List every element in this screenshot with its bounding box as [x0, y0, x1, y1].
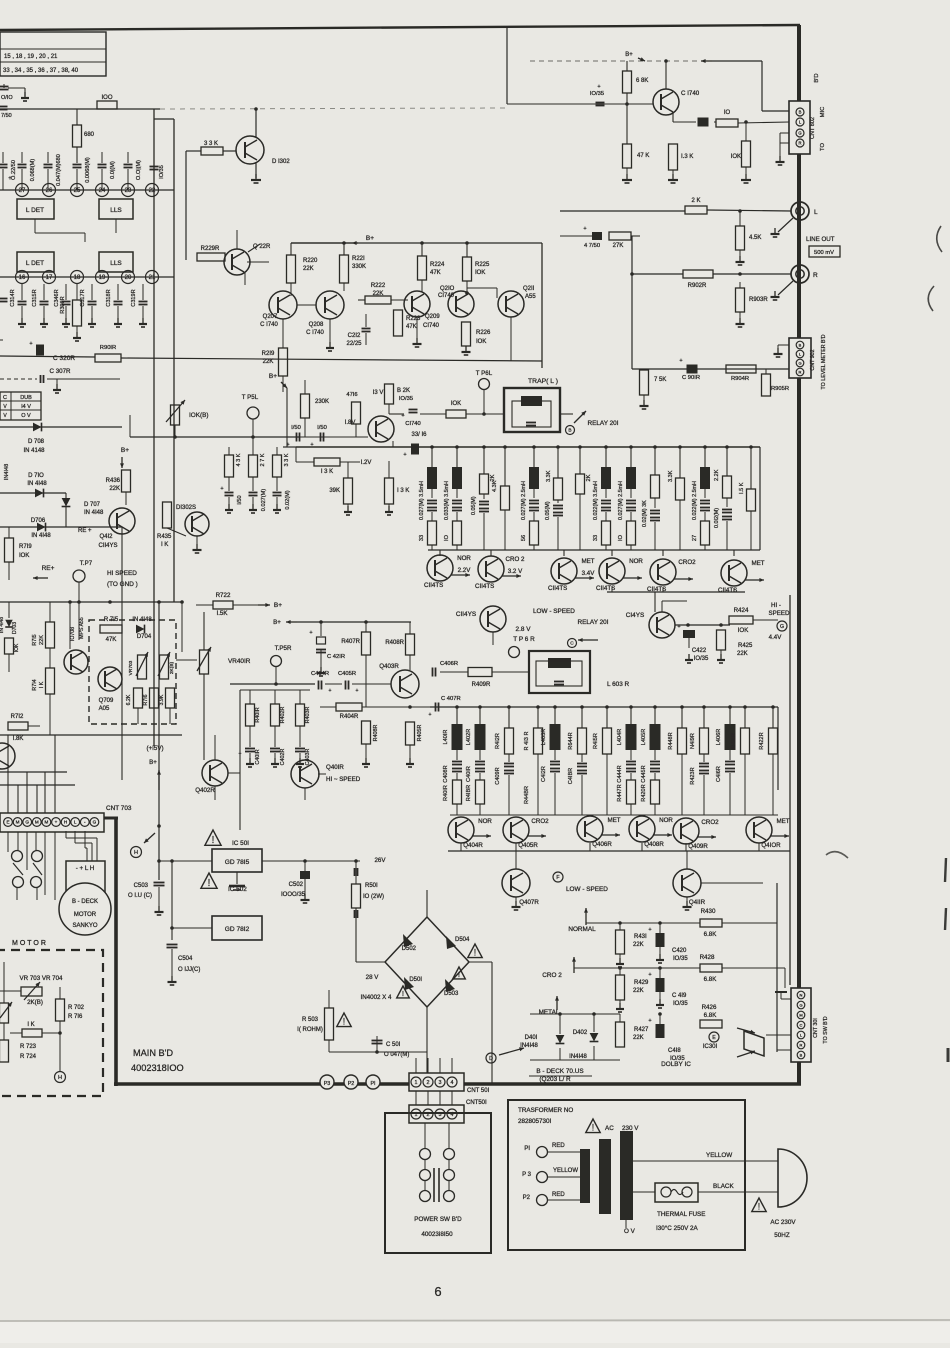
svg-text:M: M — [44, 820, 48, 825]
svg-text:R: R — [799, 369, 802, 374]
svg-text:I.8K: I.8K — [13, 736, 24, 742]
svg-text:L: L — [814, 209, 818, 216]
svg-text:56: 56 — [521, 535, 527, 541]
svg-text:G: G — [799, 1002, 802, 1007]
svg-text:I4 V: I4 V — [21, 404, 31, 410]
svg-text:C40IR: C40IR — [466, 766, 472, 782]
svg-text:+: + — [329, 688, 332, 694]
svg-text:C I740: C I740 — [681, 90, 700, 97]
svg-text:0.05(M): 0.05(M) — [471, 496, 477, 515]
svg-text:A05: A05 — [99, 706, 110, 712]
svg-text:15 , 18 , 19 , 20 , 21: 15 , 18 , 19 , 20 , 21 — [4, 54, 58, 60]
svg-text:R308R: R308R — [60, 296, 66, 313]
svg-text:27K: 27K — [613, 243, 624, 249]
svg-text:IN4I48: IN4I48 — [4, 464, 10, 480]
svg-text:22K: 22K — [373, 291, 384, 297]
svg-text:B+: B+ — [366, 235, 374, 242]
svg-text:23: 23 — [125, 188, 132, 194]
svg-text:AC: AC — [605, 1125, 614, 1132]
svg-text:NOR: NOR — [478, 818, 492, 825]
svg-text:I.5K: I.5K — [216, 610, 228, 617]
svg-text:0.068(M): 0.068(M) — [30, 159, 36, 182]
svg-text:L403R: L403R — [541, 729, 547, 745]
svg-text:22K: 22K — [633, 942, 644, 948]
svg-text:IOK: IOK — [451, 401, 461, 407]
svg-text:2.2K: 2.2K — [714, 469, 720, 481]
svg-text:!: ! — [458, 970, 460, 979]
svg-text:R42IR: R42IR — [731, 733, 737, 749]
svg-text:Q4IOR: Q4IOR — [761, 842, 781, 849]
svg-text:E: E — [6, 820, 9, 825]
svg-text:D706: D706 — [31, 518, 46, 524]
svg-text:D40I: D40I — [525, 1035, 538, 1041]
svg-text:C4I8: C4I8 — [668, 1048, 681, 1054]
svg-text:20: 20 — [125, 275, 132, 281]
svg-text:IO/35: IO/35 — [159, 165, 165, 179]
svg-text:6.8K: 6.8K — [704, 976, 718, 983]
svg-text:C: C — [800, 1022, 803, 1027]
svg-text:0.027(M) 2.5mH: 0.027(M) 2.5mH — [618, 481, 624, 520]
svg-text:CNT50I: CNT50I — [466, 1100, 487, 1106]
svg-text:C409R: C409R — [495, 767, 501, 784]
svg-text:IOOO/35: IOOO/35 — [281, 892, 306, 898]
svg-text:IO: IO — [618, 534, 624, 541]
svg-text:0.022(M) 3.5mH: 0.022(M) 3.5mH — [593, 481, 599, 520]
svg-text:YELLOW: YELLOW — [553, 1168, 578, 1174]
svg-text:MOTOR: MOTOR — [74, 912, 97, 918]
svg-text:Q2IO: Q2IO — [440, 286, 455, 292]
svg-text:CNT 902: CNT 902 — [810, 349, 816, 370]
svg-text:B+: B+ — [273, 619, 281, 626]
svg-text:RED: RED — [552, 1192, 565, 1198]
svg-text:CRO2: CRO2 — [678, 559, 696, 566]
svg-text:MIC: MIC — [820, 107, 826, 118]
svg-text:C I740: C I740 — [260, 322, 278, 328]
svg-text:B+: B+ — [274, 602, 282, 609]
svg-text:33: 33 — [593, 535, 599, 541]
svg-text:Q40IR: Q40IR — [326, 764, 344, 771]
svg-text:R 4I3 R: R 4I3 R — [524, 732, 530, 751]
svg-text:R7I2: R7I2 — [11, 714, 24, 720]
svg-text:G: G — [798, 131, 801, 136]
svg-text:I/50: I/50 — [237, 495, 243, 504]
svg-text:Q408R: Q408R — [644, 841, 664, 848]
svg-text:18: 18 — [74, 275, 81, 281]
svg-text:R7I4: R7I4 — [32, 679, 38, 690]
svg-text:R428: R428 — [700, 954, 715, 961]
svg-text:2K: 2K — [490, 474, 496, 481]
svg-text:CI4YS: CI4YS — [626, 612, 644, 619]
svg-text:H: H — [134, 850, 138, 856]
svg-text:B+: B+ — [625, 52, 633, 58]
svg-text:IOK: IOK — [14, 643, 20, 652]
svg-text:+: + — [220, 486, 223, 492]
svg-text:28 V: 28 V — [366, 974, 380, 981]
svg-text:I30°C 250V 2A: I30°C 250V 2A — [656, 1224, 699, 1232]
svg-text:MAIN B'D: MAIN B'D — [133, 1048, 173, 1058]
svg-text:R903R: R903R — [749, 297, 768, 303]
svg-text:VR703: VR703 — [128, 660, 134, 675]
svg-text:Q2II: Q2II — [523, 286, 535, 292]
svg-text:25: 25 — [74, 188, 81, 194]
svg-text:230 V: 230 V — [622, 1125, 639, 1132]
svg-text:230K: 230K — [315, 399, 329, 405]
svg-text:DI302S: DI302S — [176, 505, 196, 511]
svg-text:22K: 22K — [303, 266, 314, 272]
svg-text:B+: B+ — [269, 373, 277, 380]
svg-text:2 7 K: 2 7 K — [260, 453, 266, 466]
svg-text:3 3 K: 3 3 K — [284, 453, 290, 466]
svg-text:M: M — [16, 820, 20, 825]
svg-text:47K: 47K — [430, 270, 441, 276]
svg-text:T.P7: T.P7 — [80, 560, 93, 567]
svg-text:26V: 26V — [374, 857, 386, 864]
svg-text:C 407R: C 407R — [441, 696, 461, 702]
svg-text:RE +: RE + — [78, 528, 92, 534]
svg-text:+: + — [583, 226, 586, 232]
svg-text:C 307R: C 307R — [50, 368, 72, 375]
svg-text:B'D: B'D — [814, 73, 820, 82]
svg-text:3.3K: 3.3K — [546, 470, 552, 482]
svg-text:47 K: 47 K — [637, 153, 649, 159]
svg-text:O V: O V — [624, 1228, 636, 1235]
svg-text:VR 703 VR 704: VR 703 VR 704 — [20, 975, 64, 982]
svg-text:Q405R: Q405R — [518, 842, 538, 849]
svg-text:Q402R: Q402R — [195, 787, 215, 794]
svg-text:C4I6R: C4I6R — [716, 766, 722, 782]
svg-text:T.P5R: T.P5R — [275, 645, 292, 652]
svg-text:O.22/50: O.22/50 — [11, 160, 17, 180]
svg-text:Q406R: Q406R — [592, 841, 612, 848]
svg-text:CRO2: CRO2 — [531, 818, 549, 825]
svg-text:I 3 K: I 3 K — [321, 469, 333, 475]
svg-text:TRASFORMER NO: TRASFORMER NO — [518, 1107, 573, 1114]
svg-text:LOW - SPEED: LOW - SPEED — [533, 608, 575, 615]
svg-text:+: + — [356, 688, 359, 694]
svg-text:R422R: R422R — [759, 732, 765, 749]
svg-text:C40IR: C40IR — [255, 749, 261, 764]
svg-text:IN 4I48: IN 4I48 — [132, 617, 152, 623]
svg-text:I/50: I/50 — [291, 425, 301, 431]
svg-text:C504: C504 — [178, 956, 193, 962]
svg-text:4 3 K: 4 3 K — [236, 453, 242, 466]
svg-text:RELAY 20I: RELAY 20I — [577, 619, 608, 626]
svg-text:R: R — [813, 272, 818, 279]
svg-text:M: M — [35, 820, 39, 825]
svg-text:T P6L: T P6L — [476, 370, 493, 377]
svg-text:LOW - SPEED: LOW - SPEED — [566, 886, 608, 893]
svg-text:R 702: R 702 — [68, 1005, 85, 1011]
svg-text:Q409R: Q409R — [688, 843, 708, 850]
svg-text:0.0|(M): 0.0|(M) — [110, 161, 116, 179]
svg-text:(+I5V): (+I5V) — [146, 745, 163, 752]
svg-text:0.0I2(M): 0.0I2(M) — [714, 508, 720, 528]
svg-text:NORMAL: NORMAL — [568, 926, 596, 933]
svg-text:CI740: CI740 — [405, 421, 420, 427]
svg-text:C 50I: C 50I — [386, 1042, 401, 1048]
svg-text:16: 16 — [19, 275, 26, 281]
svg-text:I.8V: I.8V — [345, 420, 356, 426]
svg-text:CI740: CI740 — [423, 323, 440, 329]
svg-text:CII4YS: CII4YS — [456, 611, 476, 618]
svg-text:R426: R426 — [702, 1004, 717, 1011]
svg-text:METAL: METAL — [539, 1009, 560, 1016]
svg-text:R644R: R644R — [568, 732, 574, 749]
svg-text:C: C — [570, 641, 574, 647]
svg-text:AC 230V: AC 230V — [770, 1219, 796, 1226]
svg-text:P3: P3 — [324, 1081, 331, 1087]
svg-text:C405R: C405R — [338, 671, 356, 677]
svg-text:I( ROHM): I( ROHM) — [297, 1027, 323, 1033]
svg-text:R7I5: R7I5 — [32, 634, 38, 645]
svg-text:R90IR: R90IR — [100, 345, 116, 351]
svg-text:Q404R: Q404R — [463, 842, 483, 849]
svg-text:L 603 R: L 603 R — [607, 681, 630, 688]
svg-text:R408R: R408R — [385, 640, 404, 646]
svg-text:22: 22 — [149, 188, 156, 194]
svg-text:TO SW B'D: TO SW B'D — [823, 1016, 829, 1043]
svg-text:C4I2R: C4I2R — [541, 766, 547, 782]
svg-text:B: B — [568, 428, 571, 434]
svg-text:CII4TS: CII4TS — [548, 585, 567, 592]
svg-text:R4IBR: R4IBR — [466, 785, 472, 801]
svg-text:!: ! — [592, 1123, 594, 1133]
svg-text:E: E — [712, 1035, 716, 1041]
svg-text:IO/35: IO/35 — [590, 91, 604, 97]
svg-text:3.2 V: 3.2 V — [508, 568, 523, 575]
svg-text:0.05(M): 0.05(M) — [545, 501, 551, 520]
svg-text:R430: R430 — [701, 908, 716, 915]
svg-text:33/ I6: 33/ I6 — [411, 432, 427, 438]
svg-text:R405R: R405R — [417, 725, 423, 742]
svg-text:IN 4I48: IN 4I48 — [84, 510, 104, 516]
svg-text:R402R: R402R — [280, 707, 286, 724]
svg-text:R4I2R: R4I2R — [495, 733, 501, 749]
svg-text:R4I5R: R4I5R — [593, 733, 599, 749]
svg-text:CRO 2: CRO 2 — [506, 556, 525, 563]
svg-text:D503: D503 — [444, 991, 459, 997]
svg-text:R423R: R423R — [690, 767, 696, 784]
svg-text:2.2V: 2.2V — [458, 567, 472, 574]
svg-text:0.0068(M): 0.0068(M) — [85, 157, 91, 183]
svg-text:O V: O V — [21, 413, 31, 419]
svg-text:IC 50I: IC 50I — [232, 840, 249, 847]
svg-text:IOK(B): IOK(B) — [189, 412, 209, 419]
svg-text:0.027(M) 3.5mH: 0.027(M) 3.5mH — [419, 481, 425, 520]
svg-text:IO: IO — [444, 534, 450, 541]
svg-text:NOR: NOR — [457, 555, 471, 562]
svg-text:+: + — [403, 452, 406, 458]
svg-text:I/50: I/50 — [317, 425, 327, 431]
svg-text:R44BR: R44BR — [524, 786, 530, 804]
svg-text:!: ! — [212, 835, 215, 846]
svg-text:R229R: R229R — [201, 246, 220, 252]
svg-text:330K: 330K — [352, 264, 366, 270]
svg-text:D 7IO: D 7IO — [28, 473, 44, 479]
svg-text:+: + — [239, 751, 242, 757]
svg-text:R220: R220 — [303, 258, 318, 264]
svg-text:!: ! — [474, 948, 476, 958]
svg-text:N: N — [800, 992, 803, 997]
svg-text:C 4I9: C 4I9 — [672, 993, 687, 999]
svg-text:GD 78I5: GD 78I5 — [225, 859, 250, 866]
svg-text:R447R: R447R — [617, 784, 623, 801]
svg-text:4.4V: 4.4V — [769, 634, 783, 641]
svg-text:C2I2: C2I2 — [348, 333, 361, 339]
svg-text:R7I9: R7I9 — [19, 544, 32, 550]
svg-text:+: + — [648, 1018, 651, 1024]
svg-text:Q407R: Q407R — [519, 899, 539, 906]
svg-text:33 , 34 , 35 , 36 , 37 , 38, 4: 33 , 34 , 35 , 36 , 37 , 38, 40 — [3, 68, 79, 74]
svg-text:B: B — [799, 342, 802, 347]
svg-text:IO/35: IO/35 — [694, 656, 709, 662]
svg-text:RED: RED — [552, 1143, 565, 1149]
svg-text:Q4I2: Q4I2 — [99, 534, 113, 540]
svg-text:C420: C420 — [672, 948, 687, 954]
svg-text:D I302: D I302 — [272, 159, 290, 165]
svg-text:R435: R435 — [157, 534, 172, 540]
svg-text:+: + — [29, 341, 32, 347]
svg-text:2: 2 — [427, 1080, 430, 1086]
svg-text:2K(B): 2K(B) — [27, 999, 43, 1006]
svg-text:22K: 22K — [737, 651, 748, 657]
svg-text:C406R: C406R — [440, 661, 458, 667]
svg-text:0.027(M): 0.027(M) — [261, 489, 267, 512]
svg-text:R905R: R905R — [771, 386, 789, 392]
svg-text:Q403R: Q403R — [379, 663, 399, 670]
svg-text:MET: MET — [776, 818, 789, 825]
svg-text:Q4IIR: Q4IIR — [689, 899, 706, 906]
svg-text:C404R: C404R — [311, 671, 329, 677]
svg-text:C315R: C315R — [32, 289, 38, 306]
svg-text:F: F — [556, 875, 559, 881]
svg-text:R404R: R404R — [340, 714, 359, 720]
svg-text:IN 4I48: IN 4I48 — [31, 533, 51, 539]
svg-text:R50I: R50I — [365, 883, 378, 889]
svg-text:R40IR: R40IR — [255, 707, 261, 722]
svg-text:6.2K: 6.2K — [126, 694, 132, 705]
svg-text:C I740: C I740 — [306, 330, 324, 336]
svg-text:I.5 K: I.5 K — [739, 482, 745, 494]
svg-text:+: + — [8, 176, 12, 182]
svg-text:0.027(M) 2.5mH: 0.027(M) 2.5mH — [521, 481, 527, 520]
svg-text:RE+: RE+ — [42, 565, 55, 572]
svg-text:O I.U (C): O I.U (C) — [128, 893, 152, 899]
svg-text:THERMAL FUSE: THERMAL FUSE — [657, 1211, 705, 1218]
svg-text:26: 26 — [46, 188, 53, 194]
svg-text:G: G — [798, 360, 801, 365]
svg-text:0.022(M) 2.5mH: 0.022(M) 2.5mH — [692, 481, 698, 520]
svg-text:3.3K: 3.3K — [668, 470, 674, 482]
svg-text:O.O|(M): O.O|(M) — [136, 160, 142, 180]
svg-text:27: 27 — [692, 535, 698, 541]
svg-text:R902R: R902R — [688, 283, 707, 289]
svg-text:C: C — [3, 395, 7, 401]
svg-text:R22I: R22I — [352, 256, 365, 262]
svg-text:+: + — [677, 624, 680, 630]
svg-text:17: 17 — [46, 275, 53, 281]
svg-text:33: 33 — [419, 535, 425, 541]
svg-text:22K: 22K — [263, 359, 274, 365]
svg-text:PI: PI — [524, 1146, 530, 1152]
svg-text:CRO 2: CRO 2 — [542, 972, 562, 979]
svg-text:IO/35: IO/35 — [673, 1001, 688, 1007]
svg-text:3: 3 — [439, 1080, 442, 1086]
svg-text:R424: R424 — [734, 607, 749, 614]
svg-text:R226: R226 — [476, 330, 491, 336]
svg-text:I.2V: I.2V — [361, 460, 372, 466]
svg-text:HI ~ SPEED: HI ~ SPEED — [326, 776, 361, 783]
svg-text:IOK: IOK — [476, 339, 486, 345]
svg-text:H: H — [58, 1075, 62, 1081]
svg-text:6.8K: 6.8K — [704, 931, 718, 938]
svg-text:CI740: CI740 — [438, 293, 455, 299]
svg-text:IOK: IOK — [19, 553, 29, 559]
svg-text:LINE OUT: LINE OUT — [806, 236, 835, 243]
svg-text:4 7/50: 4 7/50 — [584, 243, 600, 249]
svg-text:C4IBR: C4IBR — [568, 768, 574, 784]
svg-text:22K: 22K — [633, 988, 644, 994]
svg-text:G: G — [780, 624, 784, 630]
svg-text:MET: MET — [581, 558, 594, 565]
svg-text:IN4002 X 4: IN4002 X 4 — [361, 994, 393, 1001]
svg-text:MPS A55: MPS A55 — [79, 617, 85, 639]
svg-text:L406R: L406R — [716, 729, 722, 745]
svg-text:P2: P2 — [523, 1195, 531, 1201]
svg-text:B 2K: B 2K — [397, 388, 410, 394]
svg-text:CII4TS: CII4TS — [424, 582, 443, 589]
svg-text:IO (2W): IO (2W) — [363, 894, 384, 900]
svg-text:POWER SW B'D: POWER SW B'D — [414, 1216, 462, 1223]
svg-text:27: 27 — [19, 188, 26, 194]
svg-text:IN 4148: IN 4148 — [23, 448, 45, 454]
svg-text:R222: R222 — [371, 283, 386, 289]
svg-text:R427: R427 — [634, 1027, 649, 1033]
svg-text:CNT 50I: CNT 50I — [467, 1088, 490, 1094]
svg-text:C314R: C314R — [10, 289, 16, 306]
svg-text:39K: 39K — [329, 488, 340, 494]
svg-text:I K: I K — [39, 681, 45, 688]
svg-text:L DET: L DET — [26, 207, 44, 214]
svg-text:(Q203 L/ R: (Q203 L/ R — [539, 1076, 571, 1083]
svg-text:R: R — [798, 141, 801, 146]
svg-text:40023i8I50: 40023i8I50 — [421, 1231, 453, 1238]
svg-text:D402: D402 — [573, 1030, 588, 1036]
svg-text:B - DECK: B - DECK — [72, 899, 98, 905]
svg-text:282805730I: 282805730I — [518, 1118, 552, 1125]
svg-text:+: + — [597, 84, 600, 90]
svg-text:CII4YS: CII4YS — [98, 543, 117, 549]
svg-text:M: M — [799, 1012, 802, 1017]
svg-text:C445R: C445R — [641, 765, 647, 782]
svg-text:IN 4I48: IN 4I48 — [27, 481, 47, 487]
svg-text:N4I9R: N4I9R — [690, 733, 696, 749]
svg-text:O IJJ(C): O IJJ(C) — [178, 967, 200, 973]
svg-text:CRO2: CRO2 — [701, 819, 719, 826]
svg-text:R429: R429 — [634, 980, 649, 986]
svg-text:G: G — [25, 820, 29, 825]
svg-text:B+: B+ — [121, 447, 129, 454]
svg-text:!: ! — [343, 1017, 345, 1027]
svg-text:Q208: Q208 — [309, 322, 324, 328]
svg-text:A55: A55 — [525, 294, 536, 300]
svg-text:IO/35: IO/35 — [399, 396, 413, 402]
svg-text:I 3 K: I 3 K — [397, 488, 409, 494]
svg-text:P2: P2 — [348, 1081, 355, 1087]
svg-text:VR40IR: VR40IR — [228, 658, 251, 665]
svg-text:L: L — [74, 820, 77, 825]
svg-text:D502: D502 — [402, 946, 417, 952]
